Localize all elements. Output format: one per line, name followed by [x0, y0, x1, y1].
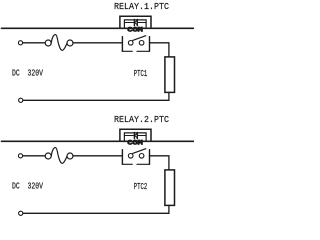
relay K1 coil box inner	[124, 20, 146, 28]
wire F1 to contact S1	[73, 42, 122, 44]
svg-text:RELAY.1.PTC: RELAY.1.PTC	[114, 2, 170, 12]
svg-text:PTC1: PTC1	[134, 68, 148, 79]
relay K1 coil box outer	[120, 16, 151, 28]
terminal T1	[18, 41, 22, 45]
wire T1 to fuse F1	[23, 42, 45, 44]
wire F2 to contact S2	[73, 155, 122, 157]
terminal T3	[18, 154, 22, 158]
wire PTC2 to T4	[23, 205, 169, 213]
wire S2 to PTC2	[150, 156, 169, 170]
svg-text:DC 320V: DC 320V	[12, 181, 43, 192]
wire bus line 1	[2, 27, 195, 29]
terminal T4	[19, 211, 23, 215]
fuse F1	[45, 35, 73, 51]
svg-text:PTC2: PTC2	[134, 181, 148, 192]
relay contact S1	[122, 36, 149, 52]
relay K2 coil box inner	[124, 133, 146, 141]
relay K2 coil box outer	[120, 129, 151, 141]
wire bus line 2	[2, 140, 195, 142]
terminal T2	[19, 98, 23, 102]
relay K2 coil element	[124, 132, 146, 138]
fuse F2	[45, 148, 73, 164]
svg-text:RELAY.2.PTC: RELAY.2.PTC	[114, 115, 170, 125]
resistor PTC1	[165, 57, 175, 93]
wire S1 to PTC1	[150, 43, 169, 57]
relay contact S2	[122, 149, 149, 165]
wire PTC1 to T2	[23, 92, 169, 100]
wire T3 to fuse F2	[23, 155, 45, 157]
svg-text:DC 320V: DC 320V	[12, 68, 43, 79]
resistor PTC2	[165, 170, 175, 206]
relay K1 coil element	[124, 19, 146, 25]
